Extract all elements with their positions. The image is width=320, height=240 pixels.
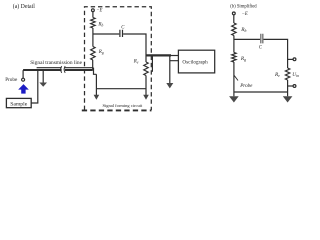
shield wire to oscilloscope <box>170 56 179 83</box>
svg-text:(a) Detail: (a) Detail <box>13 3 35 10</box>
jog wire: transmission line to ground bus <box>94 68 97 75</box>
svg-text:Probe: Probe <box>5 77 18 83</box>
resistor Rg (a) <box>91 47 95 61</box>
svg-text:−E: −E <box>96 8 102 13</box>
coax cable to oscilloscope (thick) <box>146 54 171 56</box>
wire: capacitor C to node B corner <box>123 34 146 62</box>
wire: Re bottom to ground bus <box>145 76 147 96</box>
wire: node to capacitor (b) <box>234 38 260 40</box>
transmission line lower conductor (thick), right segment <box>65 69 92 71</box>
wire: capacitor to right rail corner (b) <box>264 39 288 68</box>
direction arrow into sample <box>42 71 44 83</box>
wire: Rg down to ground (b) <box>233 62 235 96</box>
terminal -E (b) <box>232 12 235 15</box>
Uin bottom terminal circle <box>293 85 296 88</box>
capacitor C (b) <box>261 34 263 44</box>
Uin top terminal wire <box>288 58 294 60</box>
svg-text:(b) Simplified: (b) Simplified <box>230 4 257 9</box>
sample box <box>6 98 31 107</box>
transmission line upper conductor, right segment <box>65 67 94 69</box>
Uin bottom terminal wire <box>288 85 294 87</box>
svg-text:Signal forming circuit: Signal forming circuit <box>103 103 143 108</box>
right ground arrow (b) <box>283 96 293 102</box>
probe leader line (b) <box>234 75 238 80</box>
wire: -E to Rb (b) <box>233 15 235 23</box>
probe stub wire <box>22 70 24 78</box>
wire: Rb to Rg through node A <box>92 28 94 47</box>
dashed box: signal forming circuit enclosure (left, top, right sides) <box>85 7 152 110</box>
svg-text:Signal transmission line: Signal transmission line <box>30 60 82 66</box>
probe terminal circle <box>22 78 25 81</box>
wire: node A to capacitor C <box>93 33 119 35</box>
wire: Rb to Rg (b) <box>233 36 235 53</box>
thin wire: coax to oscilloscope box <box>171 55 178 57</box>
cable break symbol <box>61 66 66 73</box>
terminal -E (a) <box>92 9 95 12</box>
resistor Rg (b) <box>232 53 236 63</box>
ground bus wire (a) <box>96 88 146 90</box>
wire: sample to transmission line <box>31 70 38 103</box>
svg-text:Oscilograph: Oscilograph <box>182 60 208 66</box>
transmission line upper conductor, left segment <box>37 67 62 69</box>
shield stub at coax start <box>151 56 153 71</box>
blue arrow (signal from sample up to probe) <box>18 84 29 94</box>
capacitor C (a) <box>120 30 123 37</box>
resistor Rb (b) <box>232 23 236 36</box>
wire: Rg to transmission line junction <box>92 60 94 71</box>
resistor Re (b) <box>285 68 289 80</box>
left ground arrow <box>94 95 100 100</box>
oscilograph box <box>178 50 214 73</box>
Uin top terminal circle <box>293 58 296 61</box>
resistor Rb (a) <box>91 18 95 29</box>
left ground drop wire <box>95 74 97 95</box>
svg-text:Probe: Probe <box>239 83 253 89</box>
left ground arrow (b) <box>229 96 239 102</box>
wire: Re to ground (b) <box>287 80 289 96</box>
resistor Re (a) <box>144 62 148 76</box>
transmission line lower conductor (thick), left segment <box>23 69 62 71</box>
wire: -E terminal to Rb <box>92 12 94 18</box>
right ground arrow <box>143 95 149 100</box>
svg-text:−E: −E <box>242 12 248 17</box>
bottom wire (b) <box>234 91 288 93</box>
shield ground arrow <box>166 83 173 88</box>
dashed box bottom edge (heavy) <box>82 109 152 111</box>
svg-text:Sample: Sample <box>10 101 28 107</box>
